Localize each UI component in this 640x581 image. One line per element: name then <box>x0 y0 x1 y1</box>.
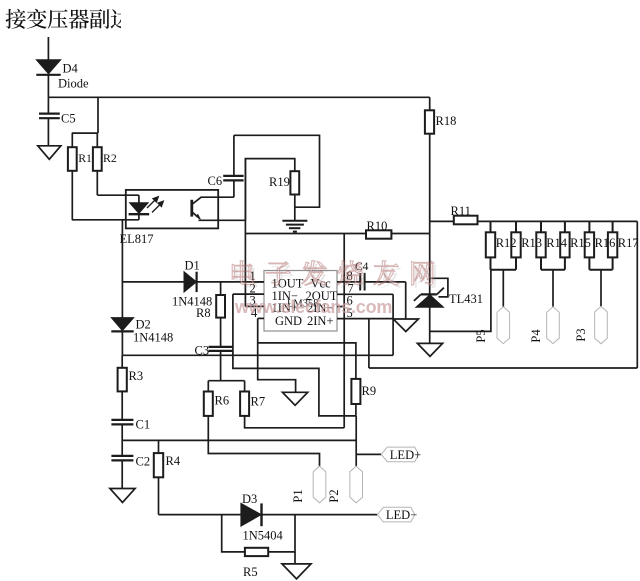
label R12 <box>496 236 517 250</box>
svg-text:C5: C5 <box>61 112 76 126</box>
watermark cn <box>232 261 437 289</box>
svg-text:P5: P5 <box>474 329 488 342</box>
label R3 <box>129 369 144 383</box>
shunt regulator U3 TL431 <box>414 278 448 307</box>
svg-text:R15: R15 <box>570 236 591 250</box>
capacitor C5 <box>39 97 60 146</box>
label C5 <box>61 112 76 126</box>
resistor R9 <box>351 379 360 404</box>
svg-text:P4: P4 <box>529 329 543 343</box>
svg-text:R5: R5 <box>243 565 258 579</box>
wire: bottom edge <box>369 367 637 369</box>
svg-text:R7: R7 <box>251 395 266 409</box>
label R2 <box>103 151 117 165</box>
wire <box>258 343 356 379</box>
label 1N4148 <box>172 295 212 309</box>
label R11 <box>451 204 471 218</box>
resistor R8 <box>216 295 225 318</box>
svg-text:R12: R12 <box>496 236 517 250</box>
wire: D1 rail <box>122 281 184 283</box>
diode D2 <box>111 318 133 332</box>
wire to P4 <box>552 270 554 307</box>
wire: R16-R17 rail <box>589 269 612 271</box>
svg-text:C2: C2 <box>136 455 151 469</box>
wire <box>429 97 431 110</box>
svg-text:R10: R10 <box>367 219 388 233</box>
label P1 <box>291 489 305 502</box>
label R10 <box>367 219 388 233</box>
ground <box>283 392 308 405</box>
label R8 <box>196 306 211 320</box>
wire: R14 top stub <box>540 221 542 232</box>
svg-text:R14: R14 <box>546 236 568 250</box>
wire <box>245 233 366 235</box>
resistor R4 <box>154 440 163 477</box>
pin 5 <box>337 306 393 320</box>
label R1 <box>78 151 92 165</box>
svg-text:C1: C1 <box>136 418 151 432</box>
resistor R17 <box>608 232 617 257</box>
label D2 <box>136 318 151 332</box>
svg-text:TL431: TL431 <box>449 292 483 306</box>
wire to P3 <box>600 270 602 307</box>
resistor R10 <box>366 230 391 238</box>
svg-text:D3: D3 <box>242 492 257 506</box>
pin 4 <box>251 306 264 320</box>
wire: R17 bottom stub <box>612 257 614 269</box>
pin 2 <box>233 281 264 295</box>
wire <box>220 351 222 381</box>
wire: emitter/pin3 vertical <box>244 159 246 307</box>
pin 8 <box>337 269 360 283</box>
led inside EL817 <box>129 203 150 220</box>
wire: inner loop <box>245 159 294 221</box>
svg-text:P3: P3 <box>574 328 588 341</box>
label R5 <box>243 565 258 579</box>
label P5 <box>474 329 488 342</box>
wire: outer loop <box>234 135 320 207</box>
label P4 <box>529 329 543 343</box>
label P3 <box>574 328 588 341</box>
svg-text:R17: R17 <box>618 236 639 250</box>
wire <box>121 331 123 355</box>
wire: R14-R15 rail <box>541 269 565 271</box>
wire: R16 bottom stub <box>588 257 590 269</box>
resistor R19 <box>290 171 299 194</box>
capacitor C4 <box>360 273 364 291</box>
svg-text:D4: D4 <box>63 62 79 76</box>
svg-text:www.elecfans.com: www.elecfans.com <box>234 297 392 317</box>
svg-text:R16: R16 <box>595 236 616 250</box>
wire <box>343 234 345 428</box>
connector P1 <box>313 466 326 503</box>
wire <box>96 171 98 195</box>
wire <box>121 460 123 488</box>
resistor R15 <box>560 232 569 257</box>
svg-text:1N5404: 1N5404 <box>243 529 284 543</box>
resistor R12 <box>486 232 495 257</box>
capacitor C6 <box>223 135 243 197</box>
resistor R16 <box>585 232 594 257</box>
label C1 <box>136 418 151 432</box>
label LM358 <box>287 298 319 309</box>
wire: bus <box>478 220 638 222</box>
svg-text:R11: R11 <box>451 204 471 218</box>
svg-text:R18: R18 <box>436 114 457 128</box>
wire: right edge <box>636 221 638 368</box>
wire <box>294 195 296 221</box>
svg-text:EL817: EL817 <box>120 232 154 246</box>
svg-text:1N4148: 1N4148 <box>133 331 173 345</box>
pin 7 <box>337 281 393 295</box>
label 1N5404 <box>243 529 284 543</box>
wire: R13 top stub <box>515 221 517 232</box>
wire <box>391 233 429 235</box>
wire <box>71 171 73 220</box>
label C6 <box>208 174 223 188</box>
label R7 <box>251 395 266 409</box>
label R9 <box>362 384 377 398</box>
diode D3 <box>241 503 262 526</box>
pin 6 <box>337 294 353 308</box>
label P2 <box>327 489 341 502</box>
wire <box>197 281 264 283</box>
label 1IN+ <box>272 301 299 315</box>
ground <box>417 343 442 356</box>
wire <box>233 294 356 416</box>
port LED- <box>377 507 417 522</box>
resistor R3 <box>118 355 127 391</box>
wire: R16 top stub <box>588 221 590 232</box>
svg-text:R9: R9 <box>362 384 377 398</box>
svg-text:P1: P1 <box>291 489 305 502</box>
svg-text:R3: R3 <box>129 369 144 383</box>
wire <box>365 282 406 319</box>
resistor R11 <box>454 216 478 225</box>
wire: R6R7 rail <box>208 381 244 392</box>
ground <box>393 319 418 332</box>
wire: R5 loop <box>222 515 245 552</box>
pin 3 <box>245 294 264 308</box>
svg-text:R1: R1 <box>78 151 92 165</box>
label D4 <box>63 62 79 76</box>
wire: R17 top stub <box>612 221 614 232</box>
svg-text:R19: R19 <box>269 175 290 189</box>
connector P4 <box>547 307 560 344</box>
connector P3 <box>595 306 608 343</box>
wire: LED+ line <box>356 453 381 455</box>
wire <box>121 424 123 456</box>
resistor R1 <box>68 147 77 171</box>
ground <box>282 564 311 579</box>
wire <box>47 37 49 60</box>
label R19 <box>269 175 290 189</box>
label 2IN- <box>307 301 334 315</box>
wire <box>294 552 296 564</box>
wire: main left vertical <box>121 220 123 318</box>
capacitor C1 <box>111 420 133 425</box>
wire: R13 bottom stub <box>515 257 517 269</box>
wire <box>72 97 98 147</box>
resistor R5 <box>245 548 268 556</box>
ground <box>38 146 61 160</box>
resistor R2 <box>93 147 102 171</box>
phototransistor in EL817 <box>192 197 201 219</box>
wire: R7 bottom rail <box>245 416 345 428</box>
wire: LED- line <box>159 514 241 516</box>
wire: R15 bottom stub <box>564 257 566 269</box>
diode D4 <box>36 60 60 75</box>
label R16 <box>595 236 616 250</box>
resistor R14 <box>536 232 545 257</box>
wire <box>121 391 123 420</box>
label Diode <box>58 77 89 91</box>
wire: led anode <box>97 195 139 203</box>
label Vcc <box>311 277 332 291</box>
svg-text:C6: C6 <box>208 174 223 188</box>
label TL431 <box>449 292 483 306</box>
wire: LED+ node vertical <box>355 416 357 466</box>
wire <box>258 318 296 392</box>
svg-text:R13: R13 <box>521 236 542 250</box>
wire <box>355 404 357 416</box>
label R4 <box>166 454 181 468</box>
net label: transformer secondary text 接变压器副边 <box>5 9 130 29</box>
svg-text:R8: R8 <box>196 306 211 320</box>
svg-text:P2: P2 <box>327 489 341 502</box>
label 1OUT <box>272 277 304 291</box>
wire: R14 bottom stub <box>540 257 542 269</box>
wire: mid rail <box>122 439 356 441</box>
watermark url <box>234 297 392 317</box>
wire <box>262 514 378 516</box>
label 1N4148 <box>133 331 173 345</box>
connector P2 <box>350 466 363 503</box>
wire: R15 top stub <box>564 221 566 232</box>
label D1 <box>185 259 200 273</box>
wire: led cathode <box>72 219 139 221</box>
label C2 <box>136 455 151 469</box>
wire <box>392 294 394 355</box>
wire: TL431 anode branch <box>430 270 491 332</box>
pin 1 <box>246 269 264 283</box>
wire: top rail <box>48 96 429 98</box>
svg-text:Diode: Diode <box>58 77 89 91</box>
wire <box>47 75 49 98</box>
wire: collector to C6 <box>201 196 234 198</box>
label D3 <box>242 492 257 506</box>
wire to P5 <box>502 270 504 307</box>
label C3 <box>195 344 210 358</box>
label GND <box>275 314 302 328</box>
svg-text:D2: D2 <box>136 318 151 332</box>
label EL817 <box>120 232 154 246</box>
connector P5 <box>497 307 510 344</box>
svg-text:D1: D1 <box>185 259 200 273</box>
svg-text:LED−: LED− <box>386 508 417 522</box>
optocoupler U2 EL817 body <box>126 190 218 229</box>
capacitor C3 <box>209 347 233 351</box>
diode D1 <box>184 272 197 292</box>
svg-text:R6: R6 <box>215 394 230 408</box>
label R18 <box>436 114 457 128</box>
port LED+ <box>381 447 421 462</box>
wire <box>368 319 370 368</box>
resistor R6 <box>204 392 213 416</box>
label R14 <box>546 236 568 250</box>
wire: R12 bottom stub <box>490 257 492 269</box>
wire: R12-R13 rail <box>491 269 517 271</box>
label 2IN+ <box>307 314 334 328</box>
label R6 <box>215 394 230 408</box>
svg-text:LED+: LED+ <box>390 448 421 462</box>
label 1IN- <box>272 289 299 303</box>
wire: R12 top stub <box>490 221 492 232</box>
wire <box>158 477 160 514</box>
resistor R7 <box>240 392 249 416</box>
wire <box>220 318 222 347</box>
wire: emitter <box>199 219 246 221</box>
wire: R5 loop right <box>268 515 295 552</box>
wire <box>429 134 431 295</box>
resistor R13 <box>511 232 520 257</box>
label C4 <box>355 261 369 273</box>
wire <box>429 307 431 343</box>
ground <box>110 489 135 503</box>
wire: bus <box>430 220 454 222</box>
op-amp U1 LM358 box <box>264 271 337 332</box>
wire <box>220 282 222 295</box>
label R13 <box>521 236 542 250</box>
svg-text:R4: R4 <box>166 454 181 468</box>
resistor R18 <box>425 110 434 133</box>
wire: long rail <box>122 354 393 356</box>
capacitor C2 <box>111 456 133 461</box>
svg-text:R2: R2 <box>103 151 117 165</box>
label R17 <box>618 236 639 250</box>
wire: R6 bottom to P1 <box>208 416 319 466</box>
light arrows <box>147 197 163 213</box>
ground: earth under R19 <box>282 221 307 232</box>
label R15 <box>570 236 591 250</box>
label 2OUT <box>306 289 338 303</box>
